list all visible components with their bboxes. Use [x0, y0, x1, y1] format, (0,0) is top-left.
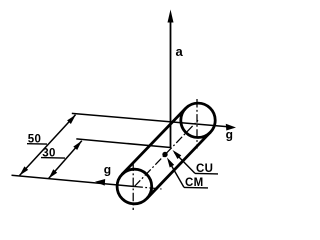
svg-text:CU: CU [196, 163, 213, 175]
svg-text:CM: CM [185, 177, 204, 189]
svg-text:a: a [176, 44, 184, 59]
svg-text:50: 50 [28, 134, 41, 146]
svg-text:30: 30 [42, 148, 55, 160]
svg-text:g: g [104, 163, 111, 177]
svg-text:g: g [226, 127, 233, 141]
